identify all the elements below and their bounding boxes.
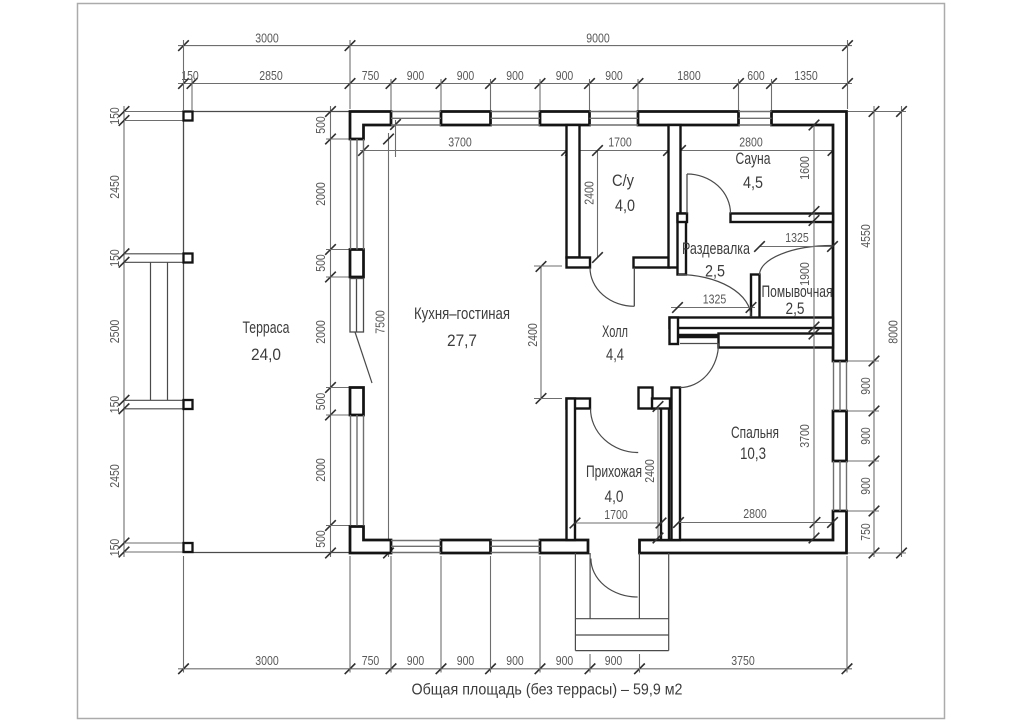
wall: corridor cap left <box>670 318 679 345</box>
wall: hallway right <box>661 407 669 540</box>
wall: hallway top left part <box>567 399 591 409</box>
svg-text:2400: 2400 <box>525 323 540 347</box>
wall: WC bottom left part <box>567 258 591 268</box>
terrace post mid-lower <box>184 400 193 409</box>
svg-text:150: 150 <box>107 539 122 557</box>
wall: bedroom left <box>672 388 681 541</box>
terrace post top-left <box>184 112 193 121</box>
svg-text:2450: 2450 <box>107 175 122 199</box>
door: hallway door <box>591 409 639 453</box>
svg-text:2000: 2000 <box>313 458 328 482</box>
svg-text:2,5: 2,5 <box>786 299 805 318</box>
svg-text:500: 500 <box>313 393 328 411</box>
door: WC door <box>633 268 635 307</box>
door: washroom door <box>760 246 833 276</box>
svg-text:10,3: 10,3 <box>740 444 766 463</box>
svg-text:4,0: 4,0 <box>605 487 624 506</box>
svg-text:900: 900 <box>506 653 524 668</box>
svg-text:Холл: Холл <box>602 322 628 341</box>
svg-text:2400: 2400 <box>582 181 597 205</box>
wall: dressing room left <box>678 214 687 275</box>
terrace stairs <box>124 253 184 255</box>
left dimension column (150,2450,150,2500,150,2450,150) <box>123 106 125 557</box>
top dimension row 2 (150,2850,750,900x5,1800,600,1350) <box>178 83 852 85</box>
svg-text:2000: 2000 <box>313 182 328 206</box>
column 7500 <box>388 133 390 557</box>
right column 8000 <box>901 106 903 557</box>
windows: left wall <box>350 139 352 250</box>
door: terrace door leaf (left wall) <box>350 279 364 333</box>
svg-text:Терраса: Терраса <box>243 318 290 337</box>
svg-text:500: 500 <box>313 254 328 272</box>
wall: left pier lower <box>350 388 364 416</box>
svg-text:Кухня–гостиная: Кухня–гостиная <box>414 304 510 323</box>
wall: bottom-left corner L <box>350 527 391 554</box>
wall: top pier 2 <box>540 112 590 126</box>
svg-text:Прихожая: Прихожая <box>586 462 642 481</box>
door: entrance door <box>589 553 591 619</box>
svg-text:Общая площадь (без террасы) –: Общая площадь (без террасы) – 59,9 м2 <box>412 682 683 699</box>
svg-text:1800: 1800 <box>677 68 701 83</box>
svg-text:Спальня: Спальня <box>731 423 779 442</box>
wall: WC left (interior) <box>567 125 580 258</box>
svg-text:4550: 4550 <box>858 224 873 248</box>
wall: left pier upper <box>350 250 364 278</box>
wall: bottom pier 1 <box>441 540 491 553</box>
svg-text:2800: 2800 <box>739 135 763 150</box>
wall: WC right / sauna left <box>669 125 681 268</box>
svg-text:1325: 1325 <box>703 292 727 307</box>
wall: top pier 1 <box>441 112 491 126</box>
dim: hall 2400 <box>540 267 542 399</box>
dim: bedroom 2800 <box>679 522 833 524</box>
svg-text:24,0: 24,0 <box>251 345 281 364</box>
wall: top-left corner L <box>350 112 391 140</box>
svg-text:2400: 2400 <box>642 459 657 483</box>
house-left column extension stubs <box>326 138 352 140</box>
svg-text:1600: 1600 <box>797 156 812 180</box>
svg-text:Раздевалка: Раздевалка <box>682 239 750 258</box>
svg-text:900: 900 <box>605 653 623 668</box>
svg-text:900: 900 <box>407 68 425 83</box>
wall: top-right corner + right wall upper <box>772 112 847 362</box>
svg-text:2450: 2450 <box>107 464 122 488</box>
wall: sauna bottom right <box>731 214 834 223</box>
wall: WC bottom right part <box>634 258 670 268</box>
svg-text:2500: 2500 <box>107 320 122 344</box>
svg-text:750: 750 <box>362 68 380 83</box>
wall: bottom-right corner + bottom wall right <box>640 511 847 553</box>
svg-text:4,4: 4,4 <box>606 345 624 364</box>
dim: dressing 1325 <box>671 307 755 309</box>
svg-text:900: 900 <box>858 427 873 445</box>
svg-text:С/у: С/у <box>612 171 634 190</box>
svg-text:900: 900 <box>457 68 475 83</box>
terrace post mid-upper <box>184 254 193 263</box>
wall: right pier <box>833 411 847 461</box>
wall: dressing/washroom bottom <box>670 318 834 329</box>
right column (4550,900,900,900,750) <box>873 106 875 557</box>
house left column (500,2000,500,2000,500,2000,500) <box>330 106 332 557</box>
svg-text:2850: 2850 <box>259 68 283 83</box>
svg-text:750: 750 <box>858 523 873 541</box>
windows: bottom wall <box>391 540 441 542</box>
dim: WC 2400 <box>597 151 599 258</box>
svg-text:4,0: 4,0 <box>615 196 635 215</box>
wall: sauna bottom left stub <box>678 214 688 223</box>
dim: right interior column 1600/1900/3700 <box>813 125 815 538</box>
svg-text:900: 900 <box>556 68 574 83</box>
svg-text:1700: 1700 <box>608 135 632 150</box>
svg-text:900: 900 <box>605 68 623 83</box>
svg-text:900: 900 <box>506 68 524 83</box>
svg-text:3700: 3700 <box>448 135 472 150</box>
svg-text:500: 500 <box>313 116 328 134</box>
dim: hallway 1700 <box>575 522 661 524</box>
wall: washroom left <box>751 275 760 319</box>
svg-text:3750: 3750 <box>731 653 755 668</box>
svg-text:2000: 2000 <box>313 320 328 344</box>
door: terrace door swing line <box>355 332 372 383</box>
svg-text:750: 750 <box>362 653 380 668</box>
wall: hallway top right part <box>652 399 670 409</box>
bottom dimension row (3000,750,900x5,3750) <box>178 668 852 670</box>
svg-text:150: 150 <box>107 396 122 414</box>
svg-text:150: 150 <box>107 249 122 267</box>
svg-text:900: 900 <box>858 477 873 495</box>
svg-text:1700: 1700 <box>604 507 628 522</box>
svg-text:900: 900 <box>858 377 873 395</box>
top extension lines <box>183 40 185 110</box>
dim: hallway 2400 <box>657 407 659 539</box>
svg-text:1350: 1350 <box>794 68 818 83</box>
wall: hallway left <box>567 399 576 541</box>
svg-text:900: 900 <box>407 653 425 668</box>
windows: right wall <box>833 361 835 411</box>
svg-text:3000: 3000 <box>255 653 279 668</box>
svg-text:Сауна: Сауна <box>736 149 771 168</box>
svg-text:2800: 2800 <box>743 506 767 521</box>
inner corner tick near 750 wall <box>395 120 397 157</box>
svg-text:3000: 3000 <box>255 31 279 46</box>
svg-text:900: 900 <box>556 653 574 668</box>
wall: lintel over bedroom door <box>678 334 719 339</box>
svg-text:4,5: 4,5 <box>743 173 763 192</box>
svg-text:150: 150 <box>107 107 122 125</box>
left post extension lines <box>124 111 184 113</box>
wall: top pier 3 (1800) <box>638 112 739 126</box>
windows: top wall <box>391 111 441 113</box>
svg-text:7500: 7500 <box>373 310 388 334</box>
svg-text:27,7: 27,7 <box>447 331 477 350</box>
svg-text:8000: 8000 <box>886 320 901 344</box>
svg-text:1325: 1325 <box>785 230 809 245</box>
interior dim row (3700 / 1700 / 2800) <box>360 150 836 152</box>
svg-text:900: 900 <box>457 653 475 668</box>
terrace post bottom-left <box>184 543 193 552</box>
door: dressing room door <box>678 275 751 318</box>
svg-text:500: 500 <box>313 530 328 548</box>
top dimension row 1 (3000 / 9000) <box>178 45 852 47</box>
svg-text:2,5: 2,5 <box>705 262 725 281</box>
dim: washroom 1325 <box>760 246 833 248</box>
wall: bedroom top <box>719 334 834 348</box>
right extension lines <box>848 111 906 113</box>
porch steps <box>574 553 576 651</box>
wall: hallway top right stub vertical <box>639 388 653 409</box>
door: bedroom door <box>680 343 719 345</box>
svg-text:9000: 9000 <box>586 31 610 46</box>
wall: bottom pier 2 <box>540 540 588 553</box>
svg-text:3700: 3700 <box>797 424 812 448</box>
terrace outline <box>183 112 185 553</box>
bottom extension lines <box>183 556 185 673</box>
door: sauna door <box>686 174 688 214</box>
svg-text:600: 600 <box>747 68 765 83</box>
